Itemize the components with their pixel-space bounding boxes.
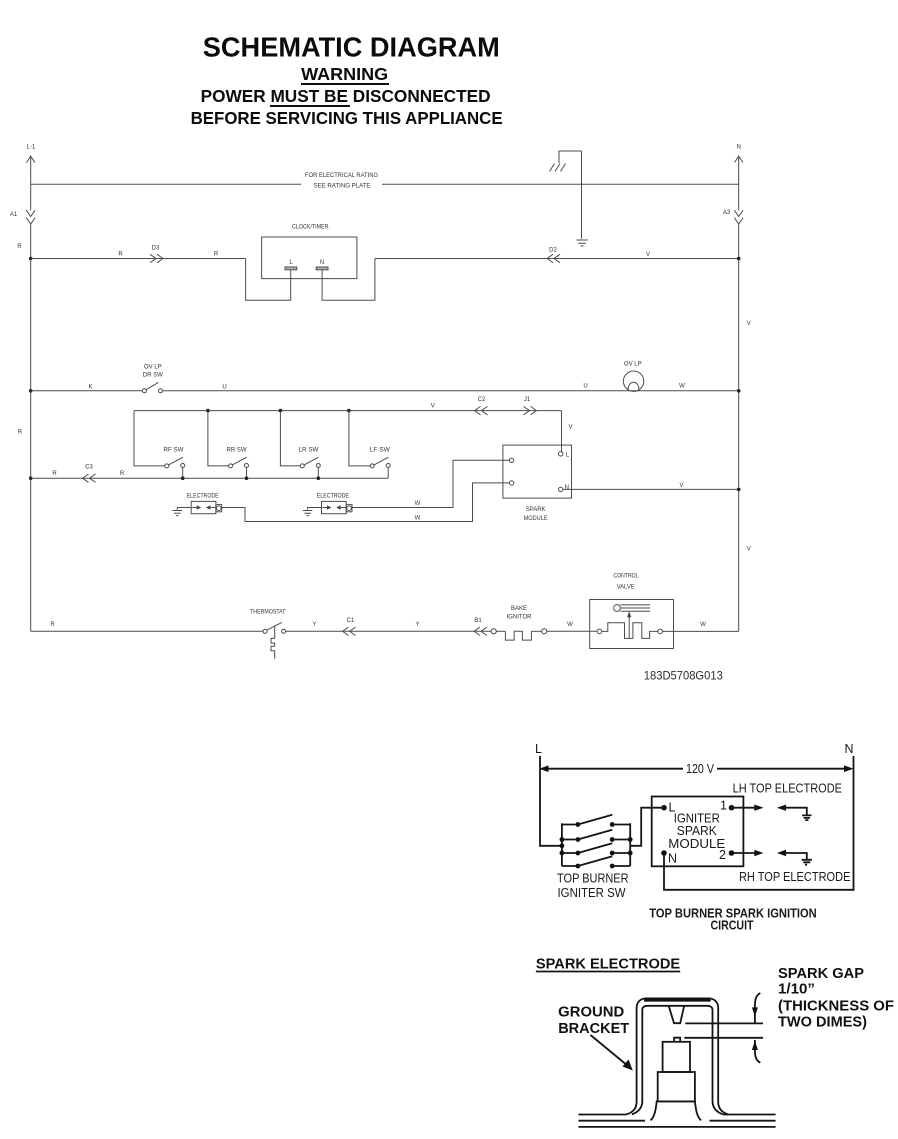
svg-text:U: U: [222, 384, 226, 390]
label FOR ELECTRICAL RATING: [305, 173, 378, 179]
label RH TOP ELECTRODE: [739, 870, 851, 884]
svg-text:WARNING: WARNING: [301, 64, 388, 84]
svg-text:THERMOSTAT: THERMOSTAT: [250, 609, 286, 615]
svg-text:A1: A1: [10, 212, 18, 218]
wire LF to rail4: [387, 468, 389, 479]
oven light pilot switch label: [143, 364, 163, 378]
electrode ceramic upper block: [663, 1042, 690, 1072]
svg-text:Y: Y: [415, 622, 419, 628]
svg-text:SEE RATING PLATE: SEE RATING PLATE: [314, 183, 371, 189]
wire chassis ground hook: [559, 151, 582, 163]
node V label rail2: [646, 252, 650, 258]
switch bank rail dots: [560, 837, 633, 855]
wire right electrode to module: [352, 460, 509, 507]
control valve left terminal: [597, 629, 602, 634]
clock/timer label: [292, 224, 330, 230]
control valve right terminal: [658, 629, 663, 634]
wire rail3 left segment: [31, 390, 143, 392]
svg-text:LF SW: LF SW: [370, 447, 390, 453]
connector C3 label: [85, 464, 93, 470]
svg-text:W: W: [415, 501, 421, 507]
wire bake ignitor to terminal: [531, 630, 541, 632]
connector D2 label: [549, 247, 557, 253]
wire burner V rail: [134, 410, 562, 412]
svg-text:MODULE: MODULE: [524, 516, 548, 522]
ground bracket pointer arrow: [591, 1035, 633, 1071]
switch LR SW label: [299, 447, 319, 453]
wire RR to rail4: [246, 468, 248, 479]
caption CIRCUIT: [711, 918, 754, 932]
wire RF drop: [134, 411, 165, 466]
node W label upper electrode wire: [415, 501, 421, 507]
svg-text:N: N: [565, 485, 569, 491]
label TWO DIMES: [778, 1014, 867, 1030]
wire left rail L-1 arrow: [27, 156, 35, 162]
node R label rail2 b: [214, 251, 219, 257]
svg-text:ELECTRODE: ELECTRODE: [317, 494, 349, 500]
wire rail2 right segment: [375, 258, 739, 260]
switch LF SW: [370, 457, 390, 468]
connector C3 chevrons: [83, 474, 96, 482]
junction dot rail4 LR: [317, 476, 321, 480]
wire spark module L drop: [561, 411, 563, 452]
connector J1 label: [524, 397, 531, 403]
svg-text:RR SW: RR SW: [227, 447, 247, 453]
wire right rail upper segment: [738, 158, 740, 211]
RH electrode ground: [802, 860, 812, 865]
node U label rail3 a: [222, 384, 226, 390]
svg-text:D3: D3: [152, 245, 160, 251]
right electrode: [322, 501, 353, 513]
title WARNING: [301, 64, 389, 84]
RH electrode spark gap arrows: [732, 850, 807, 860]
svg-text:R: R: [50, 622, 55, 628]
junction dot right rail module: [737, 488, 741, 492]
node V label right rail lower: [747, 547, 751, 553]
switch RF SW label: [164, 447, 184, 453]
wire valve to right rail: [663, 630, 739, 632]
title SCHEMATIC DIAGRAM: [203, 31, 500, 62]
wire LR drop: [280, 411, 300, 466]
wire left electrode to module: [222, 483, 510, 522]
left electrode label: [187, 494, 219, 500]
svg-text:R: R: [214, 251, 219, 257]
LH electrode ground: [802, 815, 811, 820]
svg-text:LH TOP ELECTRODE: LH TOP ELECTRODE: [733, 782, 842, 796]
node R label bottom rail: [50, 622, 55, 628]
switch RF SW: [165, 457, 185, 468]
label SPARK GAP: [778, 966, 864, 982]
svg-text:FOR ELECTRICAL RATING: FOR ELECTRICAL RATING: [305, 173, 378, 179]
svg-text:L-1: L-1: [27, 145, 36, 151]
wire top rail left segment: [31, 183, 301, 185]
wire rail3 right segment: [162, 390, 738, 392]
junction dot burner rail c: [347, 409, 351, 413]
connector C2 label: [478, 397, 486, 403]
node K label: [88, 384, 92, 390]
svg-text:W: W: [415, 516, 421, 522]
clock/timer box: [262, 237, 357, 279]
junction dot burner rail b: [279, 409, 283, 413]
electrode base block: [651, 1101, 701, 1120]
node L label fig2: [535, 742, 542, 756]
top burner igniter sw label: [557, 871, 629, 900]
switch RR SW: [229, 457, 249, 468]
label 1/10in: [778, 981, 815, 997]
electrode cap: [674, 1038, 680, 1042]
wire bottom rail mid1: [286, 630, 492, 632]
node V label burner rail: [431, 403, 435, 409]
igniter switch rung 3: [562, 843, 630, 855]
svg-text:GROUND: GROUND: [558, 1005, 624, 1021]
connector A1 label: [10, 212, 18, 218]
wire clock timer left loop: [246, 259, 291, 301]
wire fig2 left rail: [540, 756, 562, 846]
spark gap pointer line upper: [685, 1022, 763, 1024]
ground bracket top thick edge: [644, 998, 711, 1001]
node N label fig2: [844, 742, 853, 756]
wire fig2 right rail: [853, 756, 854, 890]
junction dot right rail 3: [737, 389, 741, 393]
svg-text:W: W: [679, 384, 685, 390]
node V label spark drop: [568, 425, 572, 431]
svg-text:L: L: [535, 742, 542, 756]
svg-text:B1: B1: [474, 618, 482, 624]
spark module terminal N: [559, 485, 569, 492]
title POWER MUST BE DISCONNECTED: [201, 86, 491, 106]
wire top rail right segment: [382, 183, 739, 185]
spark module box: [503, 445, 572, 498]
svg-text:V: V: [431, 403, 435, 409]
svg-text:R: R: [52, 471, 57, 477]
svg-text:N: N: [668, 851, 677, 865]
svg-text:N: N: [844, 742, 853, 756]
svg-text:W: W: [700, 622, 706, 628]
control valve label: [614, 573, 640, 590]
top burner igniter switch bank rails: [562, 823, 630, 866]
igniter switch rung 2: [562, 830, 630, 842]
wire RR drop: [208, 411, 229, 466]
svg-text:IGNITER SW: IGNITER SW: [558, 886, 626, 900]
spark module label: [524, 507, 548, 522]
wire LF drop: [349, 411, 370, 466]
node Y label bottom b: [415, 622, 419, 628]
igniter module terminal N: [661, 850, 677, 865]
control valve bimetal circle: [614, 605, 621, 612]
thermostat label: [250, 609, 286, 615]
junction dot right rail 2: [737, 257, 741, 261]
connector D2 chevrons: [547, 254, 560, 262]
control valve bimetal lines: [620, 605, 650, 611]
wire bottom rail left: [31, 630, 263, 632]
node V label module N wire: [679, 483, 683, 489]
connector B1 chevrons: [474, 627, 487, 635]
svg-text:C1: C1: [347, 618, 355, 624]
clock terminal N label: [320, 260, 324, 266]
svg-text:CLOCK/TIMER.: CLOCK/TIMER.: [292, 224, 330, 230]
clock terminal N bar: [316, 267, 328, 270]
svg-text:U: U: [583, 384, 587, 390]
spark module left terminal 2: [509, 481, 513, 485]
control valve arrow: [627, 611, 631, 638]
svg-text:V: V: [568, 425, 572, 431]
OV LP DR SW switch: [142, 382, 162, 392]
connector A3 label: [723, 210, 731, 216]
svg-text:CIRCUIT: CIRCUIT: [711, 918, 754, 932]
ground bracket outer line: [627, 998, 729, 1114]
node L-1 label: [27, 145, 36, 151]
svg-text:V: V: [646, 252, 650, 258]
label 120 V: [686, 762, 715, 776]
oven lamp OV LP label: [624, 362, 642, 368]
thermostat capillary: [271, 626, 275, 658]
wire rail2 left segment: [31, 258, 246, 260]
svg-text:OV LP: OV LP: [624, 362, 642, 368]
connector C1 chevrons: [343, 627, 356, 635]
svg-text:VALVE: VALVE: [617, 585, 635, 591]
wire spark module N to rail: [563, 488, 739, 490]
svg-text:A3: A3: [723, 210, 731, 216]
svg-text:SCHEMATIC DIAGRAM: SCHEMATIC DIAGRAM: [203, 31, 500, 62]
left electrode: [191, 501, 222, 513]
igniter module terminal 1: [720, 798, 734, 812]
svg-text:(THICKNESS OF: (THICKNESS OF: [778, 999, 894, 1015]
svg-text:SPARK GAP: SPARK GAP: [778, 966, 864, 982]
switch LF SW label: [370, 447, 390, 453]
svg-text:DR SW: DR SW: [143, 373, 163, 379]
svg-text:CONTROL: CONTROL: [614, 573, 640, 579]
svg-text:LR SW: LR SW: [299, 447, 319, 453]
dimension arrow upper: [752, 993, 760, 1023]
thermostat switch: [263, 622, 286, 633]
connector A3 chevrons: [734, 210, 743, 224]
clock terminal L label: [289, 260, 293, 266]
junction dot left rail 4: [29, 476, 33, 480]
svg-text:R: R: [120, 471, 125, 477]
svg-text:1: 1: [720, 798, 727, 812]
label THICKNESS OF: [778, 999, 894, 1015]
bake ignitor label: [507, 606, 533, 621]
wire ground drop vertical: [581, 151, 583, 239]
electrode ceramic mid block: [658, 1072, 695, 1101]
bake ignitor left terminal: [491, 629, 496, 634]
svg-text:V: V: [679, 483, 683, 489]
svg-text:V: V: [747, 321, 751, 327]
junction dot burner rail a: [206, 409, 210, 413]
svg-text:R: R: [18, 430, 23, 436]
svg-text:OV LP: OV LP: [144, 364, 162, 370]
igniter switch rung 4: [562, 856, 630, 868]
left electrode ground: [173, 511, 183, 516]
spark gap pointer line lower: [684, 1037, 763, 1039]
svg-text:W: W: [567, 622, 573, 628]
svg-text:TOP BURNER: TOP BURNER: [557, 871, 629, 885]
svg-text:ELECTRODE: ELECTRODE: [187, 494, 219, 500]
connector D3 chevrons: [150, 254, 163, 262]
svg-text:N: N: [737, 145, 741, 151]
bake ignitor element: [505, 631, 531, 640]
part number 183D5708G013: [644, 669, 723, 683]
svg-text:Y: Y: [312, 622, 316, 628]
svg-text:BEFORE SERVICING THIS APPLIANC: BEFORE SERVICING THIS APPLIANCE: [191, 108, 503, 128]
dimension arrow lower: [752, 1040, 760, 1063]
label LH TOP ELECTRODE: [733, 782, 842, 796]
caption TOP BURNER SPARK IGNITION: [649, 906, 817, 920]
connector C2 chevrons: [475, 406, 488, 414]
svg-text:BRACKET: BRACKET: [558, 1021, 629, 1037]
oven lamp OV LP: [623, 371, 643, 391]
svg-text:TWO DIMES): TWO DIMES): [778, 1014, 867, 1030]
svg-text:SPARK ELECTRODE: SPARK ELECTRODE: [536, 956, 681, 972]
igniter module label: [668, 811, 725, 850]
svg-text:R: R: [118, 251, 123, 257]
node W label lower electrode wire: [415, 516, 421, 522]
svg-text:BAKE: BAKE: [511, 606, 527, 612]
svg-text:C3: C3: [85, 464, 93, 470]
spark module left terminal 1: [509, 458, 513, 462]
LH electrode spark gap arrows: [732, 805, 807, 815]
caption SPARK ELECTRODE: [536, 956, 681, 972]
junction dot rail4 RR: [245, 476, 249, 480]
svg-text:R: R: [17, 244, 22, 250]
node V label right rail upper: [747, 321, 751, 327]
right electrode label: [317, 494, 349, 500]
label GROUND: [558, 1005, 624, 1021]
left electrode ground stub: [177, 508, 191, 510]
igniter module terminal L: [661, 801, 675, 815]
switch LR SW: [300, 457, 320, 468]
junction dot left rail 2: [29, 257, 33, 261]
svg-text:120 V: 120 V: [686, 762, 715, 776]
right electrode ground stub: [308, 508, 322, 510]
svg-text:RH TOP ELECTRODE: RH TOP ELECTRODE: [739, 870, 851, 884]
node W label bottom a: [567, 622, 573, 628]
switch RR SW label: [227, 447, 247, 453]
control valve box: [590, 600, 674, 649]
igniter module terminal 2: [719, 848, 734, 862]
svg-text:SPARK: SPARK: [526, 507, 546, 513]
wire right rail N arrow: [735, 156, 743, 162]
spark electrode tip funnel: [669, 1006, 684, 1023]
label SEE RATING PLATE: [314, 183, 371, 189]
node R label rail2 a: [118, 251, 123, 257]
node R label left rail upper: [17, 244, 22, 250]
connector B1 label: [474, 618, 482, 624]
spark module terminal L: [559, 452, 570, 459]
earth ground symbol top: [577, 240, 588, 246]
clock terminal L bar: [285, 267, 297, 270]
svg-text:J1: J1: [524, 397, 531, 403]
bake ignitor right terminal: [542, 629, 547, 634]
svg-text:183D5708G013: 183D5708G013: [644, 669, 723, 683]
node Y label bottom a: [312, 622, 316, 628]
node W label bottom b: [700, 622, 706, 628]
junction dot rail4 RF: [181, 476, 185, 480]
node N label: [737, 145, 741, 151]
svg-text:D2: D2: [549, 247, 557, 253]
node R label left rail lower: [18, 430, 23, 436]
connector A1 chevrons: [26, 210, 35, 224]
title BEFORE SERVICING THIS APPLIANCE: [191, 108, 503, 128]
node W label rail3: [679, 384, 685, 390]
connector D3 label: [152, 245, 160, 251]
wire to bake ignitor: [496, 630, 505, 632]
junction dot left rail 3: [29, 389, 33, 393]
connector C1 label: [347, 618, 355, 624]
wire left rail main segment: [30, 225, 32, 632]
wire right rail main segment: [738, 225, 740, 632]
connector J1 chevrons: [524, 406, 537, 414]
svg-text:IGNITOR: IGNITOR: [507, 615, 533, 621]
wire rail4: [31, 477, 389, 479]
svg-text:C2: C2: [478, 397, 486, 403]
svg-text:K: K: [88, 384, 92, 390]
svg-text:N: N: [320, 260, 324, 266]
node R label rail4 b: [120, 471, 125, 477]
svg-text:RF SW: RF SW: [164, 447, 184, 453]
wire RF to rail4: [182, 468, 184, 479]
wire bank output to module L: [630, 808, 661, 846]
right electrode ground: [303, 511, 313, 516]
svg-text:V: V: [747, 547, 751, 553]
svg-text:MODULE: MODULE: [668, 837, 725, 851]
wire igniter module N to rail: [664, 856, 854, 890]
wire LR to rail4: [317, 468, 319, 479]
node U label rail3 b: [583, 384, 587, 390]
igniter spark module box: [652, 797, 744, 867]
label BRACKET: [558, 1021, 629, 1037]
wire bake to valve: [547, 630, 597, 632]
svg-text:1/10”: 1/10”: [778, 981, 815, 997]
igniter switch rung 1: [562, 815, 630, 827]
node R label rail4 a: [52, 471, 57, 477]
mounting surface lines: [579, 1115, 776, 1127]
control valve coil: [602, 623, 658, 639]
120V dimension line: [539, 765, 854, 772]
wire left rail upper segment: [30, 158, 32, 211]
svg-text:POWER MUST BE DISCONNECTED: POWER MUST BE DISCONNECTED: [201, 86, 491, 106]
wire clock timer right loop: [322, 259, 375, 301]
chassis ground symbol: [550, 164, 566, 172]
ground bracket inner line: [632, 1006, 723, 1115]
